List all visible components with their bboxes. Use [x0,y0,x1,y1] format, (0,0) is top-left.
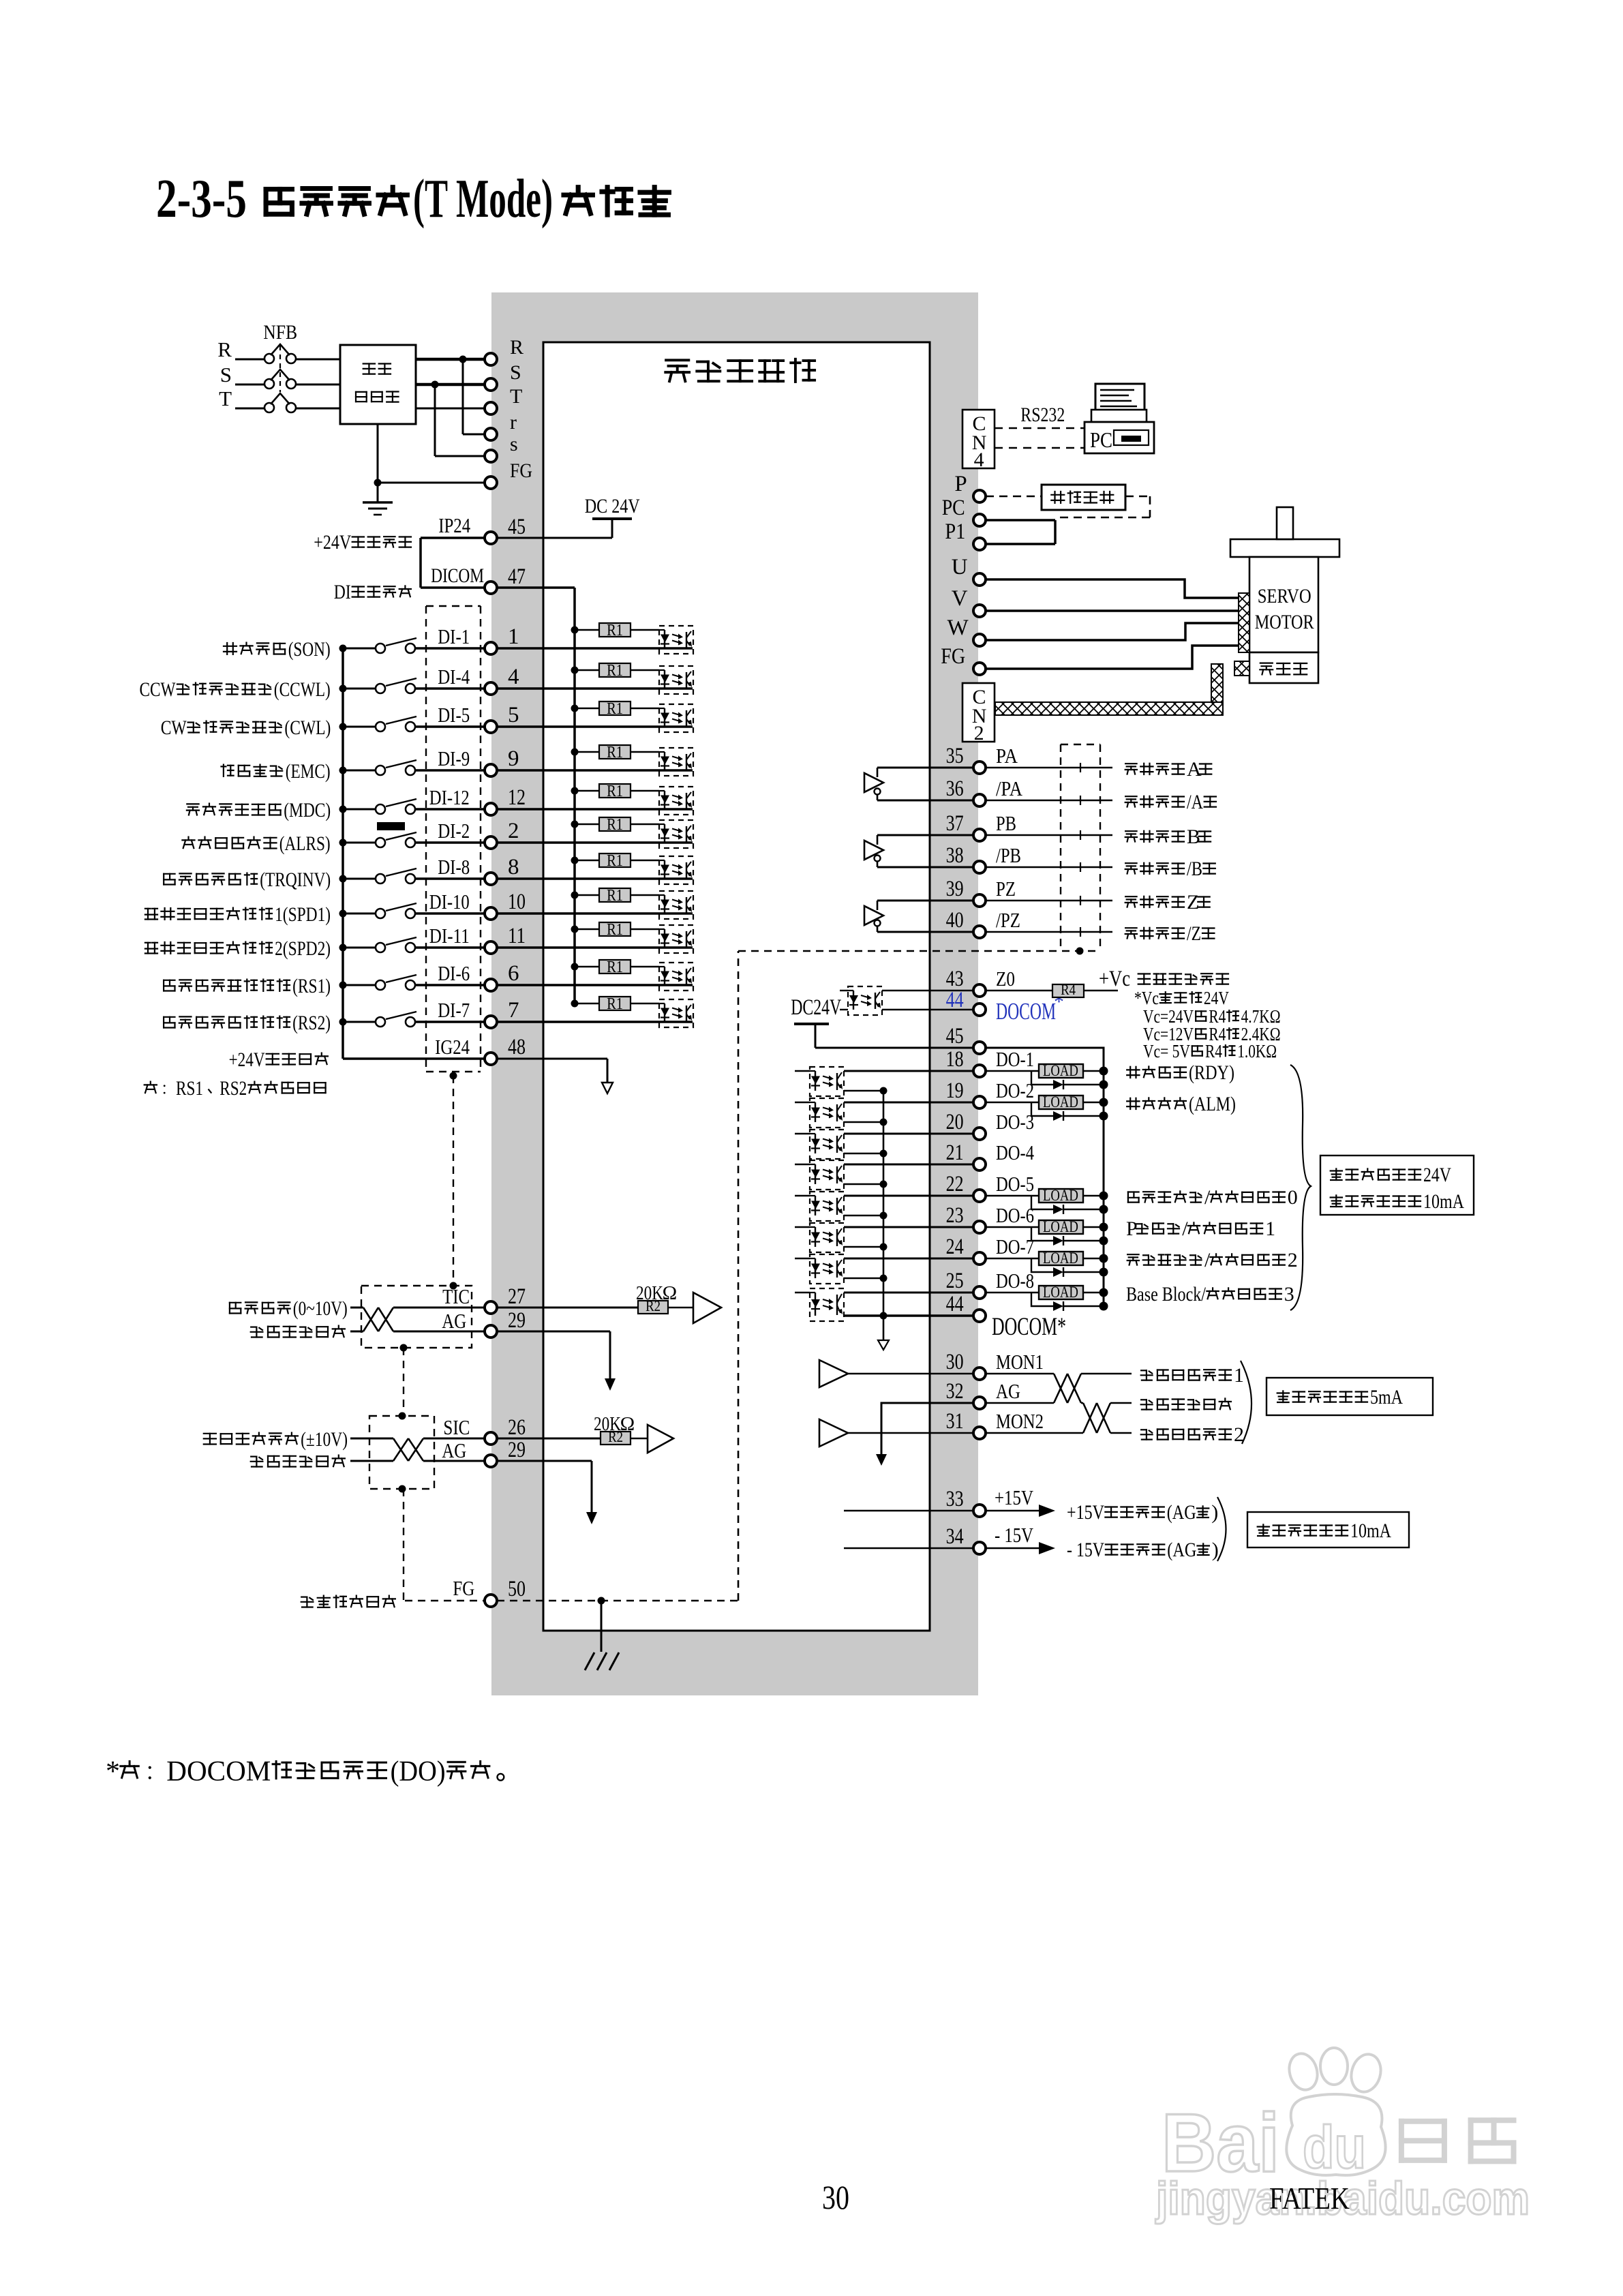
svg-text:18: 18 [946,1047,964,1072]
svg-text:- 15V: - 15V [995,1523,1033,1547]
svg-text:R1: R1 [607,921,623,939]
svg-text:AG: AG [996,1379,1020,1403]
svg-text:V: V [952,586,968,611]
svg-text:DO-5: DO-5 [996,1172,1034,1196]
svg-text:DO-3: DO-3 [996,1110,1034,1134]
svg-text:CCW: CCW [140,678,177,701]
svg-text:50: 50 [508,1577,526,1601]
svg-text:23: 23 [946,1203,964,1228]
svg-text:R1: R1 [607,622,623,639]
svg-text:RS232: RS232 [1020,404,1065,426]
svg-text:R1: R1 [607,662,623,680]
svg-text:T: T [219,387,232,410]
svg-text:7: 7 [508,998,519,1023]
svg-text:AG: AG [442,1309,466,1333]
svg-text:45: 45 [946,1024,964,1048]
svg-text:): ) [1211,1501,1218,1524]
svg-text:W: W [947,616,969,640]
svg-text:DICOM: DICOM [431,564,484,587]
svg-text:/A: /A [1187,791,1203,813]
svg-text:DI-7: DI-7 [438,998,470,1022]
svg-text:(CCWL): (CCWL) [274,678,331,701]
svg-text:LOAD: LOAD [1043,1187,1078,1204]
svg-text:30: 30 [946,1350,964,1374]
svg-text:20: 20 [946,1110,964,1134]
svg-text:R2: R2 [646,1297,661,1314]
svg-text:36: 36 [946,776,964,801]
svg-text:24: 24 [946,1235,964,1259]
svg-text:Vc= 5V: Vc= 5V [1143,1041,1190,1061]
svg-text:Z0: Z0 [996,967,1015,991]
svg-text:s: s [510,433,518,455]
svg-text:DC 24V: DC 24V [585,495,640,517]
svg-text:DI-12: DI-12 [429,785,470,809]
svg-text:1: 1 [508,624,519,649]
svg-text:9: 9 [508,746,519,771]
svg-text:DI-5: DI-5 [438,703,470,727]
svg-text:RS2: RS2 [219,1077,247,1100]
svg-text:FG: FG [453,1576,474,1600]
svg-text:(EMC): (EMC) [286,760,331,783]
svg-text:SERVO: SERVO [1258,585,1311,607]
svg-text:38: 38 [946,843,964,868]
svg-text:/B: /B [1187,858,1202,880]
svg-text:2-3-5: 2-3-5 [156,169,247,229]
svg-text:R1: R1 [607,852,623,870]
svg-text:/: / [1204,1186,1211,1209]
svg-text:- 15V: - 15V [1067,1539,1104,1561]
svg-text:R4: R4 [1061,981,1076,998]
svg-text:48: 48 [508,1035,526,1059]
svg-text:R1: R1 [607,744,623,761]
svg-text:LOAD: LOAD [1043,1284,1078,1301]
svg-text:DI-9: DI-9 [438,746,470,770]
svg-text:): ) [1212,1539,1219,1561]
svg-text:24V: 24V [1204,988,1229,1008]
svg-text:LOAD: LOAD [1043,1093,1078,1111]
svg-text:(SON): (SON) [288,638,331,661]
svg-text:(AG: (AG [1167,1501,1196,1524]
svg-text:DO-1: DO-1 [996,1047,1034,1071]
svg-text:DC24V: DC24V [791,995,841,1020]
svg-text:5mA: 5mA [1370,1386,1403,1408]
svg-text:11: 11 [508,924,526,948]
svg-text:44: 44 [946,1292,964,1316]
svg-text:(DO): (DO) [391,1756,446,1787]
svg-text:DO-8: DO-8 [996,1269,1034,1293]
svg-text:47: 47 [508,564,526,589]
svg-text:DO-4: DO-4 [996,1141,1034,1164]
svg-text:/: / [1182,1218,1188,1240]
svg-text:27: 27 [508,1284,526,1309]
svg-text:33: 33 [946,1487,964,1511]
svg-text:R1: R1 [607,958,623,976]
svg-text:+Vc: +Vc [1099,967,1130,991]
svg-text:10mA: 10mA [1350,1520,1391,1542]
svg-text:24V: 24V [1423,1164,1451,1186]
svg-text:LOAD: LOAD [1043,1218,1078,1235]
svg-text:3: 3 [1284,1283,1294,1305]
svg-text:(CWL): (CWL) [284,716,331,739]
svg-text:25: 25 [946,1269,964,1293]
svg-text:2: 2 [508,819,519,843]
svg-text:2: 2 [974,722,984,744]
svg-text:NFB: NFB [263,321,297,344]
svg-text:21: 21 [946,1141,964,1165]
svg-text:R1: R1 [607,995,623,1013]
svg-text:FG: FG [941,644,965,669]
svg-text:DI-6: DI-6 [438,961,470,985]
svg-text:R: R [510,336,524,359]
svg-text:(MDC): (MDC) [284,799,331,821]
svg-text:10: 10 [508,890,526,914]
svg-text:R4: R4 [1205,1041,1222,1061]
svg-text:1(SPD1): 1(SPD1) [275,903,331,926]
svg-text:+15V: +15V [995,1485,1033,1509]
svg-text:39: 39 [946,877,964,901]
svg-text:(TRQINV): (TRQINV) [260,868,331,891]
svg-text:r: r [510,411,517,434]
svg-text:R1: R1 [607,783,623,800]
svg-text:PC: PC [1090,427,1112,452]
svg-text:MON2: MON2 [996,1409,1044,1433]
svg-text:37: 37 [946,811,964,836]
svg-text:TIC: TIC [442,1284,470,1308]
svg-text:22: 22 [946,1172,964,1196]
svg-text:DOCOM: DOCOM [996,998,1056,1025]
svg-text:(RDY): (RDY) [1189,1061,1234,1084]
svg-text:40: 40 [946,908,964,933]
svg-text:*Vc: *Vc [1134,988,1159,1008]
svg-text:+24V: +24V [314,531,351,554]
svg-text:6: 6 [508,961,519,986]
svg-text:T: T [510,385,522,408]
svg-text:LOAD: LOAD [1043,1062,1078,1079]
svg-text:RS1: RS1 [176,1077,203,1100]
svg-text:DI-1: DI-1 [438,624,470,648]
svg-text:DI-4: DI-4 [438,665,470,689]
svg-text:0: 0 [1288,1186,1298,1209]
svg-text:34: 34 [946,1524,964,1549]
svg-text:DO-7: DO-7 [996,1235,1034,1258]
svg-text:SIC: SIC [443,1415,470,1439]
svg-text:DI: DI [334,581,351,603]
svg-text:/: / [1204,1249,1211,1271]
svg-text:29: 29 [508,1308,526,1333]
svg-text:U: U [952,555,968,579]
svg-text:R: R [217,337,232,361]
svg-text:CW: CW [161,716,187,739]
svg-text:MON1: MON1 [996,1350,1044,1374]
svg-text:10mA: 10mA [1423,1190,1464,1213]
svg-text:DO-6: DO-6 [996,1203,1034,1227]
svg-text:du: du [1303,2113,1366,2181]
svg-text:12: 12 [508,785,526,810]
svg-text:35: 35 [946,744,964,768]
svg-text:(T Mode): (T Mode) [413,169,553,229]
svg-text:FATEK: FATEK [1269,2181,1350,2216]
svg-text:IP24: IP24 [438,513,470,537]
svg-text:(RS1): (RS1) [292,975,331,997]
svg-text:FG: FG [510,459,532,482]
svg-text:2: 2 [1288,1249,1298,1271]
svg-text:DOCOM*: DOCOM* [992,1313,1066,1341]
svg-text:31: 31 [946,1409,964,1434]
svg-text:AG: AG [442,1438,466,1462]
svg-text:+15V: +15V [1067,1501,1104,1524]
svg-text:(±10V): (±10V) [301,1428,348,1451]
svg-text:32: 32 [946,1379,964,1404]
svg-text:29: 29 [508,1438,526,1462]
svg-text:LOAD: LOAD [1043,1250,1078,1267]
svg-text:/PA: /PA [996,776,1023,800]
svg-text:8: 8 [508,855,519,879]
svg-text:(ALRS): (ALRS) [279,832,331,855]
svg-text:(ALM): (ALM) [1189,1093,1236,1115]
svg-text:19: 19 [946,1078,964,1103]
svg-text:26: 26 [508,1415,526,1440]
svg-text:PA: PA [996,744,1018,768]
svg-text:DI-2: DI-2 [438,819,470,843]
svg-text:R1: R1 [607,700,623,718]
svg-text:DOCOM: DOCOM [166,1756,271,1787]
svg-text:*: * [106,1756,120,1787]
svg-text:4: 4 [508,665,519,689]
svg-text:+24V: +24V [229,1048,265,1071]
svg-text:S: S [220,363,232,387]
svg-text:R2: R2 [608,1428,623,1445]
svg-text:30: 30 [822,2178,849,2216]
svg-text:DI-10: DI-10 [429,890,470,913]
svg-text:P1: P1 [945,519,965,544]
svg-text:MOTOR: MOTOR [1255,611,1314,633]
svg-text:(0~10V): (0~10V) [293,1297,348,1320]
svg-text:PZ: PZ [996,877,1016,901]
svg-text:2(SPD2): 2(SPD2) [275,937,331,960]
svg-text:DI-11: DI-11 [429,924,470,948]
svg-text:/PZ: /PZ [996,908,1020,932]
svg-text:1: 1 [1265,1218,1275,1240]
svg-text:R1: R1 [607,816,623,834]
svg-text:P: P [954,472,967,496]
svg-text:DO-2: DO-2 [996,1078,1034,1102]
svg-text:/Z: /Z [1187,922,1201,945]
svg-text:R1: R1 [607,887,623,905]
svg-text:S: S [510,361,521,384]
svg-text:1: 1 [1234,1364,1244,1387]
svg-text:DI-8: DI-8 [438,855,470,879]
svg-text:IG24: IG24 [435,1035,470,1059]
svg-text:44: 44 [946,988,964,1012]
svg-text:(RS2): (RS2) [292,1012,331,1034]
svg-text:PB: PB [996,811,1016,835]
svg-text:1.0KΩ: 1.0KΩ [1237,1041,1277,1061]
svg-text:4: 4 [974,449,984,471]
svg-text:(AG: (AG [1167,1539,1196,1561]
svg-text:45: 45 [508,515,526,539]
svg-text:5: 5 [508,703,519,727]
svg-text:/PB: /PB [996,843,1021,867]
svg-text:Base Block/: Base Block/ [1126,1283,1207,1305]
svg-text:PC: PC [942,496,965,520]
